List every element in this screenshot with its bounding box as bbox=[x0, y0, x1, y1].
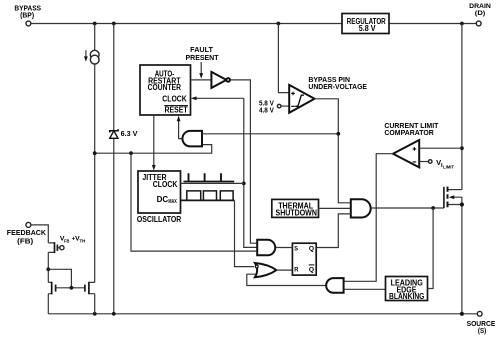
wire AND3 output to OR1 bbox=[247, 274, 326, 285]
svg-text:6.3 V: 6.3 V bbox=[121, 131, 138, 138]
wire thermal shutdown to AND4 bbox=[319, 207, 351, 209]
transistor Q1 output MOSFET bbox=[444, 187, 464, 314]
wire current limit output to AND3 bbox=[344, 154, 393, 282]
comparator U4 bypass pin under-voltage bbox=[289, 77, 367, 113]
wire drain vertical bbox=[460, 24, 464, 190]
leading edge blanking U8 box bbox=[386, 277, 428, 302]
svg-text:PRESENT: PRESENT bbox=[186, 55, 220, 62]
wire AND1 input from under-voltage bbox=[202, 133, 338, 135]
auto-restart counter U1 box bbox=[140, 65, 191, 115]
node FEEDBACK (FB) terminal bbox=[7, 222, 47, 245]
svg-text:BYPASS: BYPASS bbox=[14, 6, 41, 13]
wire bp-sense branch to AND2 bbox=[131, 153, 257, 251]
wire current limit + input to drain bbox=[419, 147, 462, 149]
svg-text:CLOCK: CLOCK bbox=[153, 180, 178, 189]
and-gate AND2 (set) bbox=[257, 240, 275, 256]
transistor Q3 mirror left bbox=[48, 282, 55, 314]
node FAULT PRESENT label and arrow bbox=[186, 47, 220, 79]
svg-text:FB: FB bbox=[64, 238, 70, 243]
svg-text:SHUTDOWN: SHUTDOWN bbox=[276, 208, 318, 217]
wire inverter output to AND2 bbox=[230, 80, 257, 243]
svg-text:BYPASS PIN: BYPASS PIN bbox=[308, 77, 350, 84]
wire AND1 output to RESET bbox=[177, 116, 182, 139]
wire AND3 input from LEB bbox=[344, 288, 386, 290]
waveform DCMAX pulses bbox=[187, 191, 233, 200]
svg-text:S: S bbox=[294, 246, 298, 253]
wire bp-sense rail bbox=[93, 145, 212, 156]
wire clock feed to auto-restart and AND2 bbox=[191, 96, 257, 247]
node VILIMIT terminal bbox=[419, 158, 454, 169]
and-gate AND1 (auto-restart reset) bbox=[182, 131, 202, 147]
svg-text:LIMIT: LIMIT bbox=[443, 164, 454, 169]
wire fault-present output to inverter bbox=[191, 79, 212, 81]
or-gate OR1 (reset) bbox=[255, 263, 277, 277]
svg-text:SOURCE: SOURCE bbox=[467, 321, 496, 328]
wire bottom source rail bbox=[48, 312, 477, 316]
svg-text:COMPARATOR: COMPARATOR bbox=[384, 130, 433, 137]
svg-text:MAX: MAX bbox=[168, 199, 177, 205]
wire zener branch bbox=[113, 24, 115, 314]
thermal shutdown U6 box bbox=[272, 199, 319, 217]
wire latch Q to AND4 bbox=[316, 214, 351, 248]
node DRAIN (D) terminal bbox=[469, 3, 491, 26]
svg-text:R: R bbox=[294, 267, 298, 274]
wire FB terminal to sense transistor bbox=[31, 225, 48, 243]
svg-text:4.8 V: 4.8 V bbox=[259, 108, 274, 115]
wire jitter clock output bbox=[181, 182, 244, 184]
comparator U5 current limit bbox=[384, 123, 439, 167]
wire DCMAX output to OR gate bbox=[181, 200, 255, 266]
svg-text:TH: TH bbox=[80, 238, 86, 243]
wire AND4 output to MOSFET gate bbox=[371, 206, 444, 210]
wire LEB to MOSFET gate node bbox=[428, 208, 434, 289]
regulator U-REG box bbox=[342, 14, 389, 34]
and-gate AND3 (current limit blanked) bbox=[326, 278, 343, 293]
transistor Q4 mirror right bbox=[85, 282, 95, 314]
transistor Q2 feedback sense bbox=[48, 236, 86, 254]
wire auto-restart to oscillator arrow bbox=[152, 115, 156, 170]
svg-text:(S): (S) bbox=[478, 328, 486, 335]
svg-text:CLOCK: CLOCK bbox=[162, 94, 187, 103]
waveform jitter clock pulses bbox=[184, 173, 235, 181]
wire current source branch bbox=[94, 24, 96, 283]
latch U7 S-R box bbox=[292, 243, 316, 275]
node 5.8V/4.8V reference terminal bbox=[259, 100, 289, 114]
wire top rail from regulator to drain bbox=[389, 22, 476, 26]
current source I1 bbox=[84, 50, 99, 64]
svg-text:RESET: RESET bbox=[165, 106, 188, 115]
wire top rail from BP to regulator bbox=[31, 22, 342, 26]
oscillator U3 box bbox=[137, 171, 182, 224]
node BYPASS (BP) terminal bbox=[14, 6, 41, 26]
svg-text:Q: Q bbox=[309, 267, 314, 274]
wire AND2 output to latch S bbox=[276, 247, 293, 249]
wire under-voltage + input from rail bbox=[278, 24, 289, 93]
svg-text:5.8 V: 5.8 V bbox=[359, 24, 376, 33]
svg-text:DC: DC bbox=[157, 195, 169, 204]
zener diode VR1 6.3 V bbox=[110, 129, 138, 138]
wire OR1 output to latch R bbox=[276, 269, 292, 271]
wire mirror gates bbox=[56, 286, 85, 290]
svg-text:UNDER-VOLTAGE: UNDER-VOLTAGE bbox=[308, 84, 367, 91]
wire under-voltage output bbox=[315, 99, 351, 203]
wire FB node bbox=[46, 252, 71, 287]
svg-text:(BP): (BP) bbox=[20, 13, 34, 20]
inverter U2 bbox=[211, 72, 230, 88]
svg-text:OSCILLATOR: OSCILLATOR bbox=[137, 215, 182, 224]
svg-text:Q: Q bbox=[309, 246, 314, 253]
svg-text:(D): (D) bbox=[475, 10, 486, 17]
node SOURCE (S) terminal bbox=[467, 311, 496, 335]
svg-text:FAULT: FAULT bbox=[190, 47, 214, 54]
and-gate AND4 (gate drive) bbox=[351, 199, 371, 217]
svg-text:(FB): (FB) bbox=[17, 237, 34, 246]
svg-text:COUNTER: COUNTER bbox=[148, 83, 182, 92]
svg-text:BLANKING: BLANKING bbox=[389, 292, 424, 301]
svg-text:5.8 V: 5.8 V bbox=[259, 100, 274, 107]
